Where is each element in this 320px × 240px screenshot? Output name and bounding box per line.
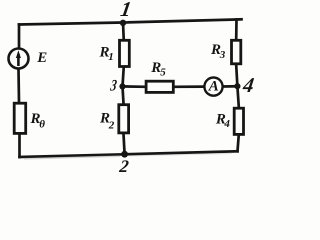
svg-text:3: 3	[219, 49, 226, 61]
svg-text:A: A	[208, 78, 219, 94]
svg-text:5: 5	[160, 67, 166, 79]
svg-text:E: E	[36, 50, 47, 66]
svg-text:4: 4	[223, 118, 230, 130]
svg-text:1: 1	[108, 51, 114, 63]
svg-text:θ: θ	[39, 118, 45, 130]
svg-text:2: 2	[108, 120, 115, 132]
